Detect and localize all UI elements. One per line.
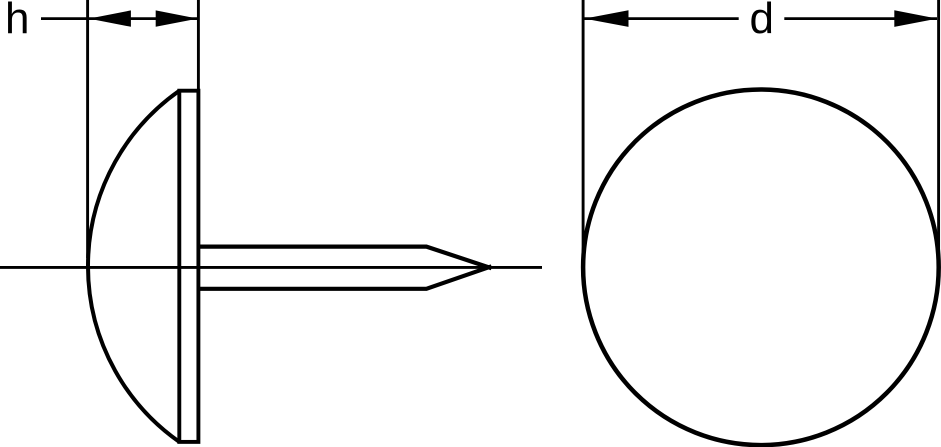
svg-text:d: d (750, 0, 774, 43)
shank bottom line (199, 266, 492, 289)
extension line right (d) (937, 0, 940, 260)
arrowhead d left (585, 10, 629, 27)
leader and dimension line h (41, 17, 198, 20)
extension line left (d) (582, 0, 585, 260)
dimension line d left segment (584, 17, 739, 20)
dome head arc (88, 91, 179, 442)
shank top line (199, 247, 492, 269)
flange plate (179, 91, 198, 442)
extension line right (h) (197, 0, 200, 92)
dimension line d right segment (784, 17, 937, 20)
extension line left (h) (86, 0, 89, 258)
arrowhead h right (156, 10, 198, 26)
arrowhead d right (894, 10, 937, 27)
svg-text:h: h (5, 0, 29, 43)
head circle front view (583, 89, 939, 445)
arrowhead h left (89, 10, 131, 26)
centerline (0, 266, 542, 269)
